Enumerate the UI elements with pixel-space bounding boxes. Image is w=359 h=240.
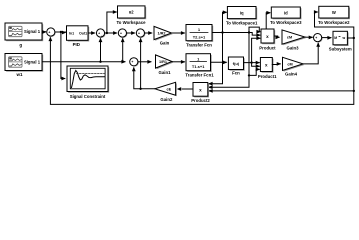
wire Gain2 out to sumE bottom (134, 68, 155, 89)
svg-text:Transfer Fcn: Transfer Fcn (186, 42, 212, 47)
svg-text:w: w (341, 36, 345, 40)
wire iq up-and-over into Product in1 (249, 27, 260, 32)
svg-text:x: x (266, 34, 269, 39)
block PID (In1 Out1) (67, 26, 90, 42)
wire sum5 to Subsystem (322, 37, 331, 39)
wire gain to Transfer Fcn (172, 32, 185, 34)
sum4 (136, 29, 145, 39)
svg-text:cM: cM (287, 62, 292, 66)
wire w1 line to sumE (42, 61, 125, 63)
wire TF1 to Fcn (211, 61, 227, 63)
junction dot D1 (248, 31, 250, 33)
wire w to Product2 lower input (209, 90, 353, 92)
block Product1 (X) (260, 58, 273, 73)
svg-text:M: M (334, 36, 337, 40)
svg-text:T2.s+1: T2.s+1 (193, 35, 206, 40)
wire w to To Workspace2 (315, 12, 354, 38)
wire TF2 to junction D1 (iq line) (212, 32, 249, 34)
junction dot u2 branch (106, 32, 108, 34)
svg-text:-: - (134, 64, 135, 68)
junction dot w to product2 (353, 90, 355, 92)
svg-text:-: - (51, 34, 52, 38)
block To Workspace3 id (271, 7, 301, 19)
gain Gain3 cM (282, 30, 306, 45)
svg-text:x: x (265, 62, 268, 67)
block Product2 (X mirrored) (193, 83, 209, 98)
svg-text:Product2: Product2 (191, 98, 210, 103)
block Transfer Fcn 1/(T2.s+1) (186, 25, 213, 42)
svg-text:Gain3: Gain3 (287, 45, 300, 50)
sumE (armature sum) (130, 58, 139, 68)
signal builder g (Signal 1) (5, 23, 43, 41)
block To Workspace2 W (319, 6, 350, 19)
svg-text:In1: In1 (69, 31, 74, 35)
junction dot error branch (60, 31, 62, 33)
svg-text:Gain1: Gain1 (159, 70, 172, 75)
wire iq staircase to Product1 in3 (249, 69, 259, 75)
wire Gain4 to sum5 bottom (303, 44, 318, 64)
svg-text:Product: Product (259, 46, 276, 51)
svg-text:Product1: Product1 (258, 74, 277, 79)
junction dot Phi on fcn output (250, 61, 252, 63)
wire iq down to Product2 upper input (209, 33, 222, 84)
wire Gain3 to sum5 (305, 36, 312, 38)
gain Gain2 cE (left pointing) (155, 82, 177, 96)
block To Workspace1 iq (227, 7, 257, 20)
wire Phi branch up to Product in3 (252, 38, 260, 62)
svg-text:Transfer Fcn1: Transfer Fcn1 (185, 72, 214, 77)
svg-text:f(u): f(u) (233, 61, 240, 66)
wire w feedback down right side (50, 38, 353, 105)
svg-text:Signal Constraint: Signal Constraint (70, 94, 106, 99)
wire error branch down to Signal Constraint (61, 32, 65, 79)
wire Phi branch down to Product1 in2 (252, 63, 260, 67)
junction dot w1 to sum2 riser (99, 61, 101, 63)
svg-text:Gain4: Gain4 (285, 72, 298, 77)
wire iq branch up to To Workspace1 (223, 12, 227, 32)
svg-text:g: g (19, 43, 22, 48)
svg-text:Signal 1: Signal 1 (24, 60, 41, 65)
block Subsystem (M w) (333, 31, 349, 46)
junction dot on iq drop (248, 74, 250, 76)
svg-text:Gain: Gain (160, 41, 170, 46)
svg-text:u2: u2 (129, 10, 135, 15)
svg-text:T1.s+1: T1.s+1 (192, 64, 205, 69)
wire Product to Gain3 (274, 36, 279, 37)
wire u2 branch up to To Workspace (107, 12, 116, 33)
svg-text:iq: iq (240, 11, 244, 16)
block Product (upper X) (261, 29, 275, 44)
svg-text:Out1: Out1 (79, 31, 87, 35)
junction dot iq workspace branch (221, 31, 223, 33)
sum2 (96, 29, 105, 39)
junction dot cE to sum4 riser (139, 88, 141, 90)
svg-text:id: id (284, 11, 288, 16)
block Transfer Fcn1 1/(T1.s+1) (186, 54, 212, 72)
wire id branch up to To Workspace3 (266, 13, 270, 29)
wire Product1 to Gain4 (272, 63, 280, 66)
signal builder w1 (Signal 1) (5, 54, 43, 72)
sum3 (118, 29, 127, 39)
svg-text:w1: w1 (15, 72, 23, 77)
wire sum2 to sum3 (105, 32, 117, 34)
svg-text:cE: cE (166, 88, 171, 92)
svg-text:To Workspace1: To Workspace1 (226, 20, 258, 25)
wire PID to sum2 (88, 32, 95, 34)
wire SB1 to sum1 (42, 31, 46, 33)
block To Workspace u2 (118, 6, 147, 19)
sum1 (47, 28, 56, 38)
arrow into sum1 bottom (49, 37, 53, 42)
wire riser w1 to sum3 bottom (122, 39, 124, 62)
wire sumE to Gain1 (138, 61, 151, 63)
junction dot w node (353, 37, 355, 39)
svg-text:To Workspace2: To Workspace2 (318, 20, 350, 25)
wire iq down to Product2 in2 (209, 33, 249, 88)
svg-text:x: x (199, 87, 202, 92)
svg-text:To Workspace3: To Workspace3 (270, 20, 302, 25)
svg-text:Subsystem: Subsystem (329, 46, 352, 51)
svg-text:Signal 1: Signal 1 (24, 29, 41, 34)
svg-text:W: W (332, 10, 336, 15)
wire sum3 to sum4 (127, 32, 135, 34)
gain 1/R1 (Gain1) (156, 55, 174, 69)
svg-text:Gain2: Gain2 (160, 97, 173, 102)
gain 1/R2 (Gain) (154, 26, 173, 40)
svg-text:1/R2: 1/R2 (157, 32, 165, 36)
wire sum4 to gain 1/R2 (145, 32, 152, 34)
wire riser w1 to sum2 bottom (100, 39, 102, 62)
wire Subsystem out to w node (347, 37, 353, 39)
block Signal Constraint (67, 66, 109, 93)
svg-text:PID: PID (73, 42, 80, 47)
wire Product2 out to Gain2 (182, 88, 193, 90)
svg-text:Fcn: Fcn (232, 71, 240, 76)
wire iq jog into Product in2 (249, 33, 260, 36)
svg-text:cM: cM (287, 36, 292, 40)
block Fcn f(u) (228, 57, 244, 71)
gain Gain4 cM (283, 57, 305, 71)
wire Gain1 to TF1 (172, 61, 184, 63)
wire sum1 to PID with branch junction (55, 31, 65, 33)
wire Fcn to Product1 in1 (244, 62, 260, 64)
junction dot w1 to sum3 riser (122, 61, 124, 63)
svg-text:1/R1: 1/R1 (159, 60, 167, 64)
sum5 (314, 34, 323, 44)
svg-text:To Workspace: To Workspace (117, 20, 147, 25)
wire riser cE to sum4 bottom (140, 39, 142, 89)
